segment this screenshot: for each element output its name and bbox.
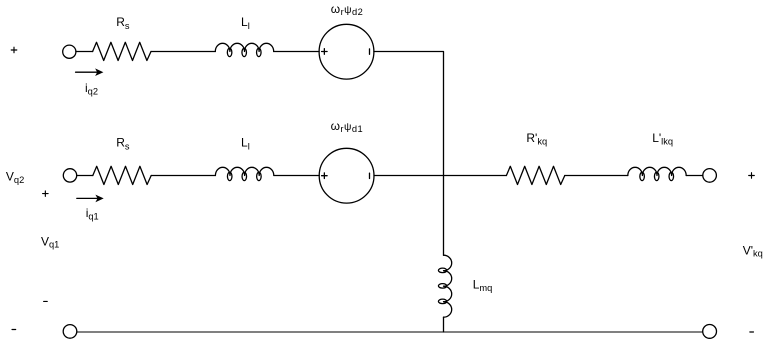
svg-text:V'kq: V'kq [743,243,763,258]
wire (middle-left terminal to Rs) [77,175,93,177]
plus sign (inside source d2) [322,49,328,55]
wire (Rs to Ll, middle) [151,175,215,177]
wire (Lmq to bottom rail) [443,317,445,332]
svg-text:Lmq: Lmq [473,277,493,293]
svg-text:Rs: Rs [116,136,130,152]
svg-text:iq2: iq2 [85,81,98,97]
resistor R'kq (damper) [506,166,564,184]
inductor L'lkq (damper leakage) [628,167,686,180]
wire (source d1 through node to R'kq) [374,175,506,177]
terminal (bottom-right, V'kq -) [703,325,717,339]
plus sign (inside source d1) [322,173,328,179]
plus sign (outer left, top) [11,47,17,53]
current arrow iq2 [76,71,98,73]
svg-text:iq1: iq1 [86,206,99,222]
wire (L'lkq to right terminal) [686,175,703,177]
wire (top-left terminal to Rs) [76,51,93,53]
svg-text:Rs: Rs [116,15,130,31]
minus sign (inner left, bottom) [44,300,48,302]
inductor Ll (leakage, coil 2) [215,43,273,56]
resistor Rs (stator, coil 2) [93,42,151,60]
wire (bottom rail, left of node) [77,331,444,333]
minus sign (inside source d2, vertical bar) [369,49,371,54]
terminal (middle-left, V_q1 +) [63,169,76,182]
svg-text:ωrψd1: ωrψd1 [331,119,363,134]
minus sign (inside source d1, vertical bar) [369,173,371,178]
wire (source d2 to node, top) + vertical node wire upper [374,52,444,256]
inductor Lmq (magnetizing, vertical) [438,255,451,317]
minus sign (outer left, bottom) [12,329,16,331]
svg-text:Vq1: Vq1 [41,234,59,249]
source ωrψd1 (speed voltage, coil 1) [319,148,374,203]
svg-text:Ll: Ll [241,15,250,31]
resistor Rs (stator, coil 1) [93,166,151,184]
plus sign (inner left, middle) [43,191,49,197]
wire (Rs to Ll, top) [151,51,215,53]
minus sign (right, bottom) [750,331,754,333]
wire (Ll to source, top) [274,51,319,53]
inductor Ll (leakage, coil 1) [215,167,273,180]
terminal (middle-right, V'kq +) [703,169,717,183]
wire (R'kq to L'lkq) [565,175,628,177]
svg-text:Ll: Ll [241,136,250,152]
svg-text:ωrψd2: ωrψd2 [331,2,363,17]
plus sign (right) [749,173,755,179]
wire (bottom rail, right of node) [444,331,703,333]
current arrow iq1 [77,197,98,199]
terminal (top-left, V_q2 +) [63,45,76,58]
wire (Ll to source, middle) [274,175,319,177]
svg-text:L'lkq: L'lkq [652,131,673,146]
svg-text:R'kq: R'kq [526,131,547,146]
terminal (bottom-left, common -) [63,325,77,339]
source ωrψd2 (speed voltage, coil 2) [319,24,374,79]
svg-text:Vq2: Vq2 [6,170,24,185]
